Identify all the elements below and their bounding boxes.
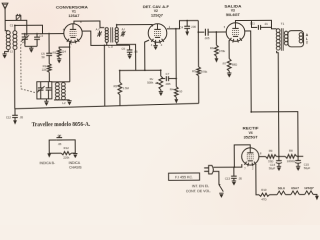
- ground under C6: [127, 55, 131, 60]
- label C6 .05: [121, 47, 138, 54]
- legend box top wire: [49, 140, 56, 153]
- label legend C4: [58, 134, 62, 138]
- svg-text:220k: 220k: [63, 156, 70, 160]
- label T1: [281, 22, 285, 26]
- label INDICA B-: [39, 161, 55, 165]
- capacitor C3: [34, 34, 40, 47]
- label C11 .01: [250, 21, 268, 26]
- svg-text:12SQ7: 12SQ7: [151, 14, 163, 18]
- svg-text:47Ω: 47Ω: [261, 197, 266, 201]
- label C14 50uF: [269, 163, 276, 171]
- resistor R5b 470k: [197, 67, 201, 76]
- label R7 68: [223, 62, 237, 67]
- wire R1 to oscillator box: [48, 72, 50, 81]
- B- arrow under C12: [13, 120, 17, 124]
- capacitor C1 antenna trimmer: [16, 14, 21, 21]
- wire V1 grid line: [22, 33, 64, 35]
- pin 4 label V2: [161, 44, 163, 47]
- capacitor C7 .005: [161, 76, 176, 81]
- svg-text:C11: C11: [250, 21, 255, 25]
- wire R6 drop: [215, 32, 217, 45]
- label C1: [10, 23, 14, 27]
- resistor R6 470k: [214, 45, 218, 56]
- label legend .05: [58, 142, 62, 146]
- svg-text:35Z5GT: 35Z5GT: [244, 135, 258, 139]
- pin 5 label V3: [224, 26, 226, 29]
- svg-text:F.I 455 KC.: F.I 455 KC.: [175, 175, 193, 179]
- svg-text:V4: V4: [249, 131, 253, 135]
- ground under V2: [153, 45, 157, 50]
- wire V1 screen: [82, 31, 104, 46]
- label R3 224: [53, 50, 67, 55]
- wire L2 bottom: [54, 99, 69, 101]
- label C13 .05: [225, 176, 242, 180]
- IF transformer core: [111, 27, 113, 42]
- wire plug lower to switch: [213, 171, 219, 184]
- label 50L6GT: [226, 13, 240, 17]
- wire C2 bottom: [24, 39, 26, 46]
- label CONT. DE VOL.: [186, 189, 211, 193]
- label V1: [72, 10, 76, 14]
- wire V4 to heater line: [256, 164, 259, 195]
- svg-text:T: T: [306, 41, 309, 45]
- label 12SQ7: [151, 14, 163, 18]
- svg-text:.05: .05: [19, 115, 23, 119]
- label C5 50: [41, 52, 45, 59]
- wire plug to rectifier heater: [234, 164, 242, 167]
- label A.C: [96, 27, 101, 31]
- wire V4 plate loop: [234, 145, 250, 167]
- B- arrow heater end: [315, 196, 319, 200]
- tube V1 12SA7: [64, 24, 83, 44]
- tube V4 35Z5GT: [242, 148, 259, 167]
- svg-text:6SA7: 6SA7: [291, 186, 299, 190]
- wire C2 C3 common: [25, 46, 37, 48]
- resistor R1 22k: [47, 64, 51, 73]
- ground under R7: [227, 73, 231, 78]
- wire V4 cathode to R9: [259, 156, 266, 158]
- resistor R3 224: [57, 49, 61, 58]
- wire heater link3: [299, 194, 304, 196]
- legend bottom wire right: [71, 152, 75, 154]
- pin 8 label V4: [260, 153, 262, 156]
- pin 2 label V2: [169, 26, 171, 29]
- svg-text:5: 5: [224, 26, 226, 29]
- capacitor C5 50: [46, 53, 52, 63]
- label L2: [62, 101, 66, 105]
- wire screen line to C6: [104, 44, 129, 46]
- label L.3: [109, 45, 114, 49]
- svg-text:224: 224: [61, 50, 66, 54]
- speaker voice coil: [299, 33, 303, 43]
- label V3: [231, 9, 235, 13]
- capacitor C10 .005 coupling: [205, 29, 226, 36]
- label C4 200: [179, 25, 196, 30]
- label R1 22k: [42, 64, 47, 71]
- svg-text:.005: .005: [165, 82, 171, 86]
- capacitor C15 50uF: [295, 156, 301, 166]
- wire V1 cathode: [69, 42, 71, 82]
- wire loop top-left: [5, 20, 8, 30]
- pin 5 label V1: [70, 43, 72, 46]
- wire to coupling cap: [198, 31, 204, 33]
- svg-text:CONT. DE VOL.: CONT. DE VOL.: [186, 189, 211, 193]
- capacitor C9 oscillator tuning: [37, 82, 45, 99]
- label A.I: [122, 27, 126, 31]
- wire R5 drop: [119, 70, 121, 82]
- svg-text:R3: R3: [53, 51, 57, 55]
- svg-text:68Ω: 68Ω: [232, 63, 237, 67]
- label .005 of C7: [165, 82, 171, 86]
- ground under C13: [232, 181, 236, 186]
- svg-text:1.5M: 1.5M: [123, 86, 130, 90]
- title Travellee modelo 8056-A: [32, 122, 91, 128]
- label R4 10M: [170, 87, 183, 93]
- svg-text:200: 200: [191, 25, 196, 29]
- output transformer T1 secondary: [284, 31, 288, 45]
- wire loop to B- bus: [13, 49, 15, 108]
- label C15 50uF: [304, 162, 311, 170]
- label L1: [10, 49, 14, 53]
- resistor R4 10M: [174, 87, 178, 98]
- svg-text:50μF: 50μF: [304, 166, 311, 170]
- label RV 500k: [147, 77, 154, 85]
- pin 7 label V4: [244, 167, 246, 170]
- loop antenna L1 right winding: [13, 31, 17, 50]
- heater 6SA7: [291, 191, 299, 195]
- svg-text:10: 10: [179, 89, 183, 93]
- wire heater end: [313, 194, 317, 195]
- svg-text:R10: R10: [261, 188, 267, 192]
- svg-text:2: 2: [252, 167, 254, 170]
- svg-text:.005: .005: [204, 36, 210, 40]
- wire antenna to tuning: [5, 20, 27, 36]
- legend resistor R12 220k: [61, 152, 71, 155]
- heater 12SQ7: [305, 191, 313, 195]
- svg-text:50L6: 50L6: [278, 186, 285, 190]
- svg-text:3: 3: [151, 44, 153, 47]
- wire V1 plate to IF: [74, 21, 104, 28]
- wire heater link1: [270, 194, 278, 196]
- resistor R7 68: [227, 59, 231, 72]
- ground at switch: [219, 193, 223, 198]
- svg-text:.05: .05: [58, 142, 62, 146]
- wire AVC line: [120, 69, 161, 71]
- label R5 1.5M: [113, 84, 129, 90]
- switch INT: [218, 184, 223, 192]
- label 12SQ7: [304, 186, 314, 190]
- label 50L6: [278, 186, 285, 190]
- svg-text:50L6GT: 50L6GT: [226, 13, 240, 17]
- tube V3 50L6GT: [226, 23, 245, 43]
- oscillator coil L2: [55, 82, 65, 99]
- wire RV to ground: [160, 90, 162, 92]
- resistor R5 1.5M: [118, 82, 122, 95]
- svg-text:C13: C13: [225, 177, 231, 181]
- svg-text:C4: C4: [58, 134, 62, 138]
- svg-text:C12: C12: [6, 116, 12, 120]
- label DET. CAV. A-F: [143, 5, 170, 9]
- label R5b 470k: [192, 69, 208, 74]
- ground under R3: [57, 59, 61, 64]
- svg-text:R7: R7: [223, 62, 227, 66]
- svg-text:R5: R5: [192, 69, 196, 73]
- label V2: [154, 9, 158, 13]
- pin 8 label V1: [80, 21, 82, 24]
- antenna: [2, 3, 8, 20]
- wire T1 primary bottom to B+: [277, 51, 279, 157]
- svg-text:L2: L2: [62, 101, 66, 105]
- wire V2 cathode to ground: [155, 42, 157, 45]
- wire cathode to R3: [59, 47, 70, 49]
- resistor R10 47: [259, 193, 270, 196]
- capacitor C12 .05: [12, 109, 18, 121]
- label V4: [249, 131, 253, 135]
- wire screen line across: [251, 112, 298, 157]
- svg-text:R12: R12: [64, 146, 70, 150]
- svg-text:INDICA B-: INDICA B-: [39, 161, 55, 165]
- svg-text:T1: T1: [281, 22, 285, 26]
- svg-text:Travellee modelo 8056-A.: Travellee modelo 8056-A.: [32, 122, 91, 128]
- wire R5 to bus: [119, 95, 121, 106]
- output transformer T1 primary: [276, 29, 280, 50]
- label 12SA7: [68, 14, 79, 18]
- svg-text:INT. EN EL: INT. EN EL: [192, 184, 209, 188]
- label SALIDA: [224, 4, 241, 8]
- resistor R9 33: [266, 155, 277, 159]
- label 6SA7: [291, 186, 299, 190]
- IF transformer primary: [105, 28, 108, 43]
- wire V2 plate: [167, 20, 199, 28]
- wire V3 plate to T1: [235, 20, 251, 22]
- pin 3 label V2: [151, 44, 153, 47]
- chassis arrow legend: [73, 154, 77, 159]
- svg-text:.05: .05: [238, 176, 242, 180]
- dashed gang line: [21, 42, 36, 93]
- svg-text:12SA7: 12SA7: [68, 14, 79, 18]
- boxed label F.I 455 KC: [169, 173, 200, 180]
- capacitor C14 50uF: [276, 156, 282, 166]
- wire R8 to junction2: [297, 155, 304, 157]
- wire L2 bottom to ground: [68, 99, 70, 102]
- capacitor C6 .05: [127, 45, 133, 54]
- svg-text:CHASIS: CHASIS: [69, 165, 82, 169]
- svg-text:R6: R6: [210, 46, 214, 50]
- ground under RV: [159, 91, 163, 96]
- trimmer A.I: [121, 31, 126, 37]
- capacitor C8 padder: [46, 82, 52, 99]
- B- arrow under R6: [215, 56, 219, 62]
- label 220k: [63, 156, 70, 160]
- wire osc box bottom to bus: [45, 99, 47, 101]
- potentiometer RV 500k: [155, 70, 162, 90]
- label 35Z5GT: [244, 135, 258, 139]
- wire plate elbow down: [197, 20, 199, 32]
- label CONVERSORA: [56, 4, 88, 9]
- wire IF secondary bottom to AVC: [117, 42, 136, 70]
- B- bus: [15, 103, 199, 108]
- label INDICA CHASIS: [69, 161, 83, 169]
- IF transformer secondary: [115, 28, 118, 43]
- svg-text:22k: 22k: [42, 68, 47, 72]
- svg-text:5: 5: [70, 43, 72, 46]
- label C3: [40, 34, 44, 38]
- wire IF primary to bus: [103, 45, 105, 106]
- svg-text:A.C: A.C: [96, 27, 101, 31]
- wire IF primary bottom: [106, 42, 108, 45]
- svg-text:470k: 470k: [201, 70, 208, 74]
- wire V2 grid return: [145, 40, 150, 70]
- wire V3 cathode to R7: [228, 40, 230, 58]
- pin 2 label V4: [252, 167, 254, 170]
- label .005 coupling: [204, 36, 210, 40]
- svg-text:7: 7: [244, 167, 246, 170]
- svg-text:R8: R8: [289, 149, 293, 153]
- svg-text:C6: C6: [121, 47, 125, 51]
- pin 4 label V1: [63, 28, 65, 31]
- ground under C15: [296, 166, 300, 171]
- legend box right wire: [62, 140, 75, 153]
- B- arrow under C4: [185, 31, 189, 35]
- label C7: [166, 72, 170, 76]
- wire IF secondary top to V2 grid: [117, 25, 153, 28]
- svg-text:R5: R5: [113, 84, 117, 88]
- legend bottom wire left: [49, 152, 61, 154]
- svg-text:R9: R9: [269, 149, 273, 153]
- capacitor C13 .05: [231, 167, 237, 181]
- resistor R5b 470k line: [197, 32, 199, 67]
- label R8 1000: [287, 149, 295, 163]
- label R6 470k: [210, 46, 226, 53]
- ground under L2: [67, 101, 71, 106]
- svg-text:C1: C1: [10, 23, 14, 27]
- svg-text:C4: C4: [179, 25, 183, 29]
- wire plate to primary: [251, 20, 276, 29]
- wire loop bottom left to ground: [5, 49, 9, 54]
- T1 core: [281, 28, 283, 51]
- svg-text:12SQ7: 12SQ7: [304, 186, 314, 190]
- AC plug: [204, 165, 234, 174]
- label R10 47: [261, 188, 267, 201]
- wire grid line to C5: [48, 34, 50, 54]
- svg-text:8: 8: [260, 153, 262, 156]
- svg-text:R4: R4: [170, 88, 174, 92]
- svg-text:50μF: 50μF: [269, 166, 276, 170]
- wire V3 screen to B line: [245, 31, 251, 112]
- label C12 .05: [6, 115, 24, 119]
- label ALT: [306, 33, 309, 45]
- ground under C14: [277, 166, 281, 171]
- tube V2 12SQ7: [148, 24, 167, 44]
- label INT. EN EL: [192, 184, 209, 188]
- speaker frame: [288, 31, 304, 47]
- resistor R8 1000: [285, 154, 296, 158]
- svg-text:1000Ω: 1000Ω: [287, 159, 295, 163]
- loop antenna L1 left winding: [6, 31, 10, 50]
- label R9 33: [268, 149, 273, 163]
- label RECTIF: [243, 126, 260, 130]
- oscillator section box: [37, 82, 52, 99]
- capacitor C11 .01 tone: [251, 20, 271, 30]
- svg-text:50: 50: [42, 55, 46, 59]
- svg-text:470k: 470k: [219, 49, 226, 53]
- ground under C2 C3: [29, 48, 33, 53]
- svg-text:500k: 500k: [147, 81, 154, 85]
- svg-text:.01: .01: [264, 22, 268, 26]
- wire R3 to ground: [58, 57, 60, 59]
- legend capacitor C6 .05: [56, 135, 62, 140]
- wire loop top-right to grid wire: [15, 25, 43, 34]
- ground under oscillator box: [44, 101, 48, 106]
- wire R5b to bus: [198, 76, 200, 104]
- wire heater link2: [286, 194, 291, 196]
- ground under loop: [2, 54, 6, 59]
- svg-text:C3: C3: [40, 34, 44, 38]
- label R12 220k: [64, 146, 70, 150]
- capacitor C2 tuning: [21, 34, 29, 44]
- wire osc box top to cathode line: [52, 81, 70, 83]
- svg-text:C7: C7: [166, 72, 170, 76]
- wire R7 to ground: [228, 71, 230, 73]
- wire R9 to junction: [276, 155, 285, 157]
- wire diode line: [175, 29, 177, 87]
- heater 50L6: [277, 191, 285, 195]
- svg-text:4: 4: [161, 44, 163, 47]
- B- arrow legend: [47, 153, 51, 157]
- svg-text:L1: L1: [10, 49, 14, 53]
- capacitor C4 200: [184, 21, 190, 32]
- trimmer A.C: [97, 31, 102, 37]
- svg-text:A.I: A.I: [122, 27, 126, 31]
- B- arrow under R4: [174, 97, 178, 103]
